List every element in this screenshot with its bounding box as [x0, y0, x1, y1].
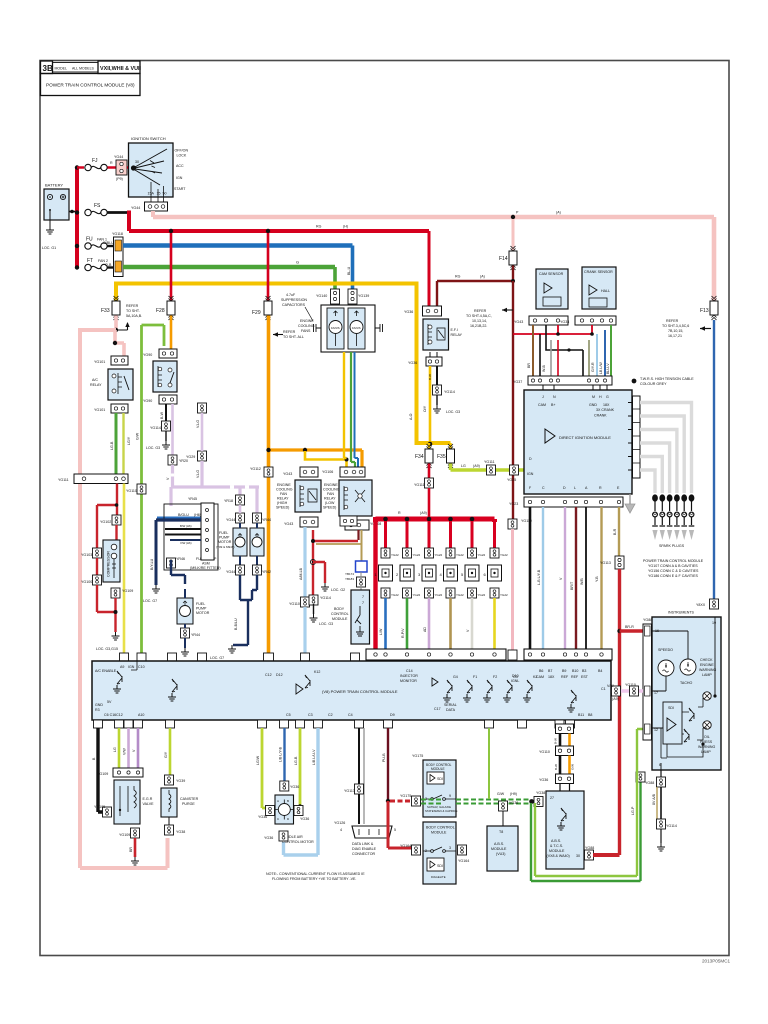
connector YG118 — [103, 232, 123, 277]
svg-text:REFER: REFER — [666, 319, 679, 323]
svg-text:(A): (A) — [556, 211, 561, 215]
svg-text:15: 15 — [157, 192, 161, 196]
wire pink sensor return — [511, 529, 514, 653]
svg-text:(V8) POWER TRAIN CONTROL MODUL: (V8) POWER TRAIN CONTROL MODULE — [322, 689, 398, 694]
engine cooling fans box — [298, 305, 375, 352]
svg-text:3B: 3B — [43, 64, 53, 73]
connector YG106 bottom — [345, 520, 381, 530]
svg-text:YG22: YG22 — [391, 593, 399, 597]
wire navy motor2 top loop — [171, 560, 185, 584]
wire maroon below low speed relay — [357, 530, 359, 540]
connector YG164 right — [458, 845, 467, 855]
A/C compressor — [103, 540, 120, 582]
svg-text:(M9-K/RE FITTED): (M9-K/RE FITTED) — [190, 566, 221, 570]
svg-text:YG100: YG100 — [81, 580, 92, 584]
svg-text:B-B/LU: B-B/LU — [234, 618, 238, 630]
svg-text:YG110: YG110 — [289, 602, 300, 606]
connector YR46 motor2 top — [167, 558, 176, 568]
svg-text:V-LG: V-LG — [196, 420, 200, 428]
svg-text:C17: C17 — [434, 707, 441, 711]
svg-text:B4: B4 — [598, 669, 602, 673]
wire red supply trunk — [75, 168, 79, 269]
connector YG38 abs tcs — [534, 797, 543, 807]
connector YG112 on orange trunk — [264, 467, 273, 477]
body control module upper — [423, 760, 458, 817]
fuel pump ASM connector column — [188, 497, 214, 560]
svg-text:B7: B7 — [548, 669, 552, 673]
svg-text:IGN: IGN — [128, 665, 135, 669]
svg-text:& T.C.S.: & T.C.S. — [550, 844, 563, 848]
svg-text:YG139: YG139 — [358, 294, 369, 298]
svg-text:SDI: SDI — [437, 777, 443, 781]
svg-text:YG110: YG110 — [625, 683, 636, 687]
svg-text:C2: C2 — [328, 713, 333, 717]
instruments panel — [652, 611, 721, 771]
wire navy feed lines — [156, 518, 201, 521]
fuse F34 — [428, 443, 431, 449]
svg-text:YG22: YG22 — [435, 593, 443, 597]
wire black B-W relay ground — [165, 404, 167, 421]
svg-text:YG110: YG110 — [539, 750, 550, 754]
svg-text:YG29: YG29 — [186, 455, 195, 459]
connector YG105 left of EGR — [103, 807, 112, 817]
svg-text:LB L/W: LB L/W — [599, 362, 603, 374]
wire lavender fuel pump feed — [171, 404, 174, 455]
svg-text:YG164: YG164 — [458, 859, 469, 863]
svg-text:YG22: YG22 — [456, 553, 464, 557]
svg-text:CAM: CAM — [536, 675, 544, 679]
svg-text:Y-B: Y-B — [595, 576, 599, 582]
svg-text:CAM SENSOR: CAM SENSOR — [539, 272, 564, 276]
svg-text:F34: F34 — [415, 454, 424, 460]
wire lime ignition-module IGN — [451, 464, 525, 471]
connector YG44 pump2 — [253, 513, 262, 523]
fuse FS — [85, 209, 107, 215]
pin stubs DIM top — [543, 385, 607, 390]
svg-text:SDI: SDI — [668, 706, 674, 710]
connector YR22 — [236, 495, 245, 505]
svg-text:FAN/S: FAN/S — [331, 326, 340, 330]
svg-text:YG113: YG113 — [344, 789, 355, 793]
body control module mid — [331, 590, 370, 644]
connector YG8X — [710, 599, 719, 609]
fuse FT — [85, 264, 107, 270]
powertrain control module U1 — [92, 661, 611, 720]
fuse F35 — [449, 443, 452, 449]
svg-text:Y8XX: Y8XX — [696, 603, 706, 607]
svg-text:RELAY: RELAY — [451, 333, 463, 337]
canister purge valve — [161, 788, 199, 817]
svg-text:DIAG ENABLE: DIAG ENABLE — [352, 847, 377, 851]
svg-text:B8: B8 — [588, 713, 592, 717]
wire green main band — [123, 265, 335, 270]
connector YG109 compressor — [111, 588, 120, 598]
connector bar DIM wires — [524, 649, 612, 660]
svg-text:YG22: YG22 — [391, 553, 399, 557]
wire navy below ASM motors — [239, 556, 241, 565]
connector YG111 wide — [58, 474, 128, 484]
svg-text:YR45: YR45 — [188, 497, 197, 501]
wire red FS feed — [127, 213, 129, 232]
svg-text:MODULE: MODULE — [491, 847, 507, 851]
svg-text:CANISTER: CANISTER — [180, 797, 199, 801]
wire red sensor supply branch — [513, 333, 592, 335]
svg-text:YG44: YG44 — [226, 518, 235, 522]
connector YG37 row — [513, 376, 612, 385]
svg-text:7: 7 — [362, 595, 364, 599]
svg-text:T8: T8 — [499, 830, 503, 834]
connector YG44 (switch outputs) — [131, 202, 168, 211]
connector YG108 — [340, 516, 357, 526]
svg-text:(VX8 & WA40): (VX8 & WA40) — [547, 854, 570, 858]
svg-text:LG-P: LG-P — [631, 806, 635, 815]
wire red to EFI relay — [428, 231, 431, 307]
svg-text:18X: 18X — [548, 675, 555, 679]
svg-text:(Y09 & M949): (Y09 & M949) — [216, 545, 235, 549]
svg-text:YG44: YG44 — [114, 155, 123, 159]
svg-text:R: R — [398, 511, 401, 515]
svg-text:D9: D9 — [390, 713, 395, 717]
svg-text:LOC. G7: LOC. G7 — [143, 599, 157, 603]
relay engine cooling fan (low speed) — [323, 480, 372, 516]
connector YG110 pink — [508, 519, 517, 529]
svg-text:FAN: FAN — [280, 492, 287, 496]
svg-text:POWER TRAIN CONTROL MODULE: POWER TRAIN CONTROL MODULE — [643, 559, 704, 563]
svg-text:RELAY: RELAY — [90, 383, 102, 387]
svg-text:WARNING: WARNING — [699, 668, 716, 672]
svg-text:16,17,21: 16,17,21 — [668, 334, 682, 338]
svg-text:COOLING: COOLING — [323, 488, 340, 492]
svg-text:YR20: YR20 — [179, 459, 188, 463]
ABS TCS module — [546, 791, 584, 869]
fuse F13 — [710, 296, 718, 320]
svg-text:27: 27 — [550, 796, 554, 800]
svg-text:YG36: YG36 — [509, 801, 518, 805]
svg-text:(LOW: (LOW — [325, 501, 335, 505]
wire battery to trunk — [69, 211, 77, 213]
svg-text:YG88: YG88 — [643, 618, 652, 622]
svg-text:YR46: YR46 — [176, 557, 185, 561]
svg-text:YG22: YG22 — [456, 593, 464, 597]
wire red injector supply — [428, 464, 431, 479]
svg-text:R: R — [599, 486, 602, 490]
svg-text:SPEED): SPEED) — [276, 506, 289, 510]
svg-text:YG109: YG109 — [119, 833, 130, 837]
svg-text:F1: F1 — [473, 675, 477, 679]
svg-text:T.W.R.S. HIGH TENSION CABLE: T.W.R.S. HIGH TENSION CABLE — [640, 377, 694, 381]
instruments pin6 wire down — [660, 770, 662, 777]
battery B1 — [44, 183, 69, 227]
svg-text:SPEED): SPEED) — [323, 506, 336, 510]
svg-text:FLOWING FROM BATTERY +VE TO BA: FLOWING FROM BATTERY +VE TO BATTERY -VE. — [272, 877, 356, 881]
svg-text:(H6): (H6) — [194, 513, 201, 517]
svg-text:YG156 CONN C & D CAVITIES: YG156 CONN C & D CAVITIES — [648, 569, 699, 573]
wire yellow fan relay branch — [305, 451, 347, 467]
svg-text:YG109: YG109 — [122, 589, 133, 593]
svg-text:C3: C3 — [308, 713, 313, 717]
svg-text:5: 5 — [394, 828, 396, 832]
wire black EFI ground — [436, 366, 438, 385]
border frame — [40, 61, 729, 956]
svg-text:D: D — [529, 457, 532, 461]
svg-text:YG22: YG22 — [500, 553, 508, 557]
svg-text:YG88: YG88 — [645, 781, 654, 785]
ground LOC G7 — [228, 645, 236, 653]
wire green fans down — [351, 352, 355, 467]
wire motor2 bottom — [184, 643, 186, 648]
svg-text:VXII,WHII & VUII: VXII,WHII & VUII — [100, 66, 142, 72]
svg-text:YG38: YG38 — [176, 830, 185, 834]
svg-text:GND: GND — [589, 403, 597, 407]
svg-text:YG22: YG22 — [478, 593, 486, 597]
svg-text:D10: D10 — [512, 674, 519, 678]
svg-text:PUMP: PUMP — [196, 607, 207, 611]
svg-text:MODULE: MODULE — [549, 849, 565, 853]
wire navy loop left — [155, 520, 158, 585]
svg-text:YG107 CONN A & B CAVITIES: YG107 CONN A & B CAVITIES — [648, 564, 698, 568]
svg-text:YG22: YG22 — [500, 593, 508, 597]
relay U10 EFI — [423, 319, 463, 350]
svg-text:ALL MODELS: ALL MODELS — [72, 67, 95, 71]
wire yellow EFI relay to F34 — [429, 366, 432, 445]
svg-text:J: J — [542, 395, 544, 399]
wire orange cooling-fan branch — [269, 450, 363, 467]
svg-text:YG140: YG140 — [316, 294, 327, 298]
svg-text:LAMP: LAMP — [702, 673, 712, 677]
svg-text:B3: B3 — [582, 669, 586, 673]
svg-text:IGN: IGN — [527, 472, 534, 476]
svg-text:MONITOR: MONITOR — [400, 679, 417, 683]
svg-text:A/C: A/C — [92, 378, 98, 382]
svg-text:7B,10,15,: 7B,10,15, — [668, 329, 683, 333]
svg-text:DATA: DATA — [446, 708, 456, 712]
svg-text:YB174: YB174 — [345, 572, 354, 576]
data link wires — [358, 728, 360, 824]
wire tan below low speed relay — [361, 530, 363, 561]
svg-text:C4: C4 — [348, 713, 353, 717]
svg-text:8V A/B: 8V A/B — [652, 793, 656, 805]
svg-text:A-O: A-O — [409, 413, 413, 420]
fuse F28 — [170, 233, 173, 301]
svg-text:A9: A9 — [120, 665, 124, 669]
connector YG44 pump1 — [236, 513, 245, 523]
wire lime serial to G/W — [488, 728, 490, 799]
connector YR44 motor2 bottom — [181, 628, 190, 638]
svg-text:YG39: YG39 — [176, 779, 185, 783]
svg-text:C: C — [542, 486, 545, 490]
svg-text:YG44: YG44 — [131, 206, 140, 210]
svg-text:B: B — [287, 799, 289, 803]
wire red main band — [129, 229, 429, 233]
wires EGR solenoid — [118, 728, 121, 768]
svg-text:YR44: YR44 — [262, 518, 271, 522]
svg-text:C1: C1 — [601, 687, 606, 691]
svg-text:G: G — [606, 395, 609, 399]
wire green G/W to ABS — [421, 800, 443, 804]
connector YG23 row below DIM — [509, 497, 623, 507]
wire pink ignition feed — [151, 211, 155, 217]
svg-text:(H): (H) — [343, 225, 348, 229]
svg-text:C12: C12 — [265, 673, 272, 677]
svg-text:STATESMAN & CAPRICE: STATESMAN & CAPRICE — [425, 809, 458, 813]
svg-text:YG43: YG43 — [283, 472, 292, 476]
wire lime bottom loop inner — [535, 729, 643, 876]
svg-text:SPEEDO: SPEEDO — [658, 648, 673, 652]
blue marker square — [356, 561, 368, 572]
svg-text:(A9): (A9) — [473, 464, 480, 468]
right frame inner line — [687, 61, 689, 956]
svg-text:C14: C14 — [406, 669, 413, 673]
svg-text:F14: F14 — [499, 256, 508, 262]
svg-text:V/W: V/W — [607, 684, 614, 688]
svg-text:CONTROL MOTOR: CONTROL MOTOR — [282, 840, 314, 844]
svg-text:O-B: O-B — [105, 263, 112, 267]
svg-text:YG175: YG175 — [400, 794, 411, 798]
connector YG2 right of DIM — [628, 396, 640, 478]
svg-text:H: H — [599, 395, 602, 399]
svg-text:RG: RG — [316, 225, 322, 229]
wire pink F33 down — [114, 316, 118, 331]
svg-text:OIL: OIL — [704, 735, 710, 739]
svg-text:D: D — [563, 486, 566, 490]
high tension cables grey — [640, 403, 692, 494]
svg-text:LOCK: LOCK — [177, 154, 187, 158]
svg-text:5A,10A,B.: 5A,10A,B. — [126, 314, 142, 318]
svg-text:YG186 CONN E & F CAVITIES: YG186 CONN E & F CAVITIES — [648, 574, 698, 578]
svg-text:ENGINE: ENGINE — [700, 663, 714, 667]
wire yellow main band — [116, 284, 451, 444]
svg-text:(A9): (A9) — [420, 511, 427, 515]
svg-text:B/GLU: B/GLU — [178, 513, 189, 517]
tacho — [680, 659, 696, 675]
connector YG106 top (low speed relay) — [322, 467, 365, 477]
injector drops — [386, 521, 495, 548]
svg-text:YG126: YG126 — [334, 821, 345, 825]
wire black EGR feed — [98, 728, 103, 812]
svg-text:5V: 5V — [107, 700, 112, 704]
svg-text:B-W: B-W — [428, 374, 432, 380]
svg-text:INSTRUMENTS: INSTRUMENTS — [668, 611, 695, 615]
svg-text:C5: C5 — [286, 713, 291, 717]
svg-text:TO SHT. ALL: TO SHT. ALL — [283, 335, 304, 339]
relay fuel pump — [153, 361, 177, 392]
svg-text:A: A — [277, 799, 279, 803]
PCM top pin connectors — [120, 650, 518, 661]
svg-text:A10: A10 — [138, 713, 144, 717]
svg-text:17: 17 — [654, 691, 658, 695]
ground LOC G1 — [46, 226, 54, 234]
wires above ABS TCS — [556, 724, 574, 734]
svg-text:MOTOR: MOTOR — [196, 611, 210, 615]
svg-text:16,21B,22.: 16,21B,22. — [470, 324, 487, 328]
svg-text:B+: B+ — [551, 403, 556, 407]
svg-text:L/W: L/W — [379, 628, 383, 635]
svg-text:G/W: G/W — [497, 792, 505, 796]
svg-text:AD: AD — [423, 627, 427, 632]
svg-text:O/BLU: O/BLU — [103, 241, 114, 245]
svg-text:B6: B6 — [539, 669, 543, 673]
svg-text:COLOUR GREY: COLOUR GREY — [640, 382, 667, 386]
wire red relay branch net — [312, 530, 314, 596]
high tension note — [632, 379, 637, 384]
svg-text:R: R — [110, 161, 113, 165]
wire tan to YG113 and red down — [618, 507, 620, 556]
svg-text:YG118: YG118 — [112, 232, 123, 236]
svg-text:FS: FS — [94, 203, 101, 209]
svg-text:DIAGELITE: DIAGELITE — [431, 875, 446, 879]
svg-text:WARNING: WARNING — [698, 745, 715, 749]
svg-text:YG101: YG101 — [94, 408, 105, 412]
svg-text:IGNITION SWITCH: IGNITION SWITCH — [131, 136, 166, 141]
wire green A/C relay down — [115, 413, 118, 474]
body control module lower — [423, 822, 456, 884]
svg-text:G/W: G/W — [136, 432, 140, 440]
svg-text:9: 9 — [449, 794, 451, 798]
svg-text:YG25: YG25 — [507, 478, 516, 482]
svg-text:LG-B: LG-B — [110, 441, 114, 450]
PCM bottom pin connectors — [94, 720, 575, 728]
svg-text:TACHO: TACHO — [680, 681, 693, 685]
svg-text:YG164: YG164 — [400, 844, 411, 848]
svg-text:12: 12 — [654, 728, 658, 732]
svg-text:YG114: YG114 — [444, 390, 455, 394]
svg-text:YG114: YG114 — [320, 596, 331, 600]
svg-text:IGNL: IGNL — [511, 679, 519, 683]
svg-text:COMPRESSOR: COMPRESSOR — [107, 551, 111, 577]
connector YG90 bottom — [143, 395, 177, 404]
wire red PCM injector main — [373, 517, 377, 653]
svg-text:30: 30 — [135, 160, 139, 164]
svg-text:MODULE: MODULE — [431, 831, 447, 835]
svg-text:C6 C16C12: C6 C16C12 — [104, 713, 123, 717]
connector YG34 crank — [560, 316, 616, 325]
connector YG43 cam — [514, 316, 568, 325]
wire red compressor ground — [114, 598, 116, 632]
svg-text:SDI: SDI — [437, 864, 443, 868]
svg-text:YG37: YG37 — [513, 380, 522, 384]
svg-text:YG22: YG22 — [413, 593, 421, 597]
svg-text:YG36: YG36 — [258, 815, 267, 819]
svg-text:(A9): (A9) — [612, 697, 619, 701]
svg-text:B-R: B-R — [613, 528, 617, 535]
svg-text:L-B L/Y-B: L-B L/Y-B — [537, 569, 541, 585]
svg-text:A.B.S.: A.B.S. — [551, 839, 561, 843]
ignition switch S1 — [129, 136, 189, 202]
fuse F33 — [112, 296, 120, 320]
svg-text:FUEL: FUEL — [196, 602, 205, 606]
svg-text:POWER TRAIN CONTROL MODULE (V8: POWER TRAIN CONTROL MODULE (V8) — [46, 83, 135, 88]
svg-text:YG106: YG106 — [322, 470, 333, 474]
title block — [41, 61, 141, 96]
svg-text:F33: F33 — [101, 308, 110, 314]
svg-text:FU: FU — [86, 237, 93, 243]
internal wires — [652, 617, 715, 728]
svg-text:A/M-LB: A/M-LB — [299, 567, 303, 580]
svg-text:O/Y: O/Y — [423, 405, 427, 412]
svg-text:B11: B11 — [578, 713, 584, 717]
svg-text:YG111: YG111 — [58, 478, 69, 482]
svg-text:INJECTOR: INJECTOR — [400, 674, 418, 678]
direct ignition module U2 — [524, 390, 632, 494]
svg-text:3: 3 — [449, 846, 451, 850]
wire blue main band — [123, 243, 353, 248]
connector YG90 top (fuel pump relay) — [143, 349, 177, 358]
svg-text:G: G — [296, 260, 299, 265]
connector YG39 — [165, 775, 174, 785]
svg-text:BODY: BODY — [334, 607, 345, 611]
injector return wires — [384, 598, 387, 653]
svg-text:F28: F28 — [156, 308, 165, 314]
